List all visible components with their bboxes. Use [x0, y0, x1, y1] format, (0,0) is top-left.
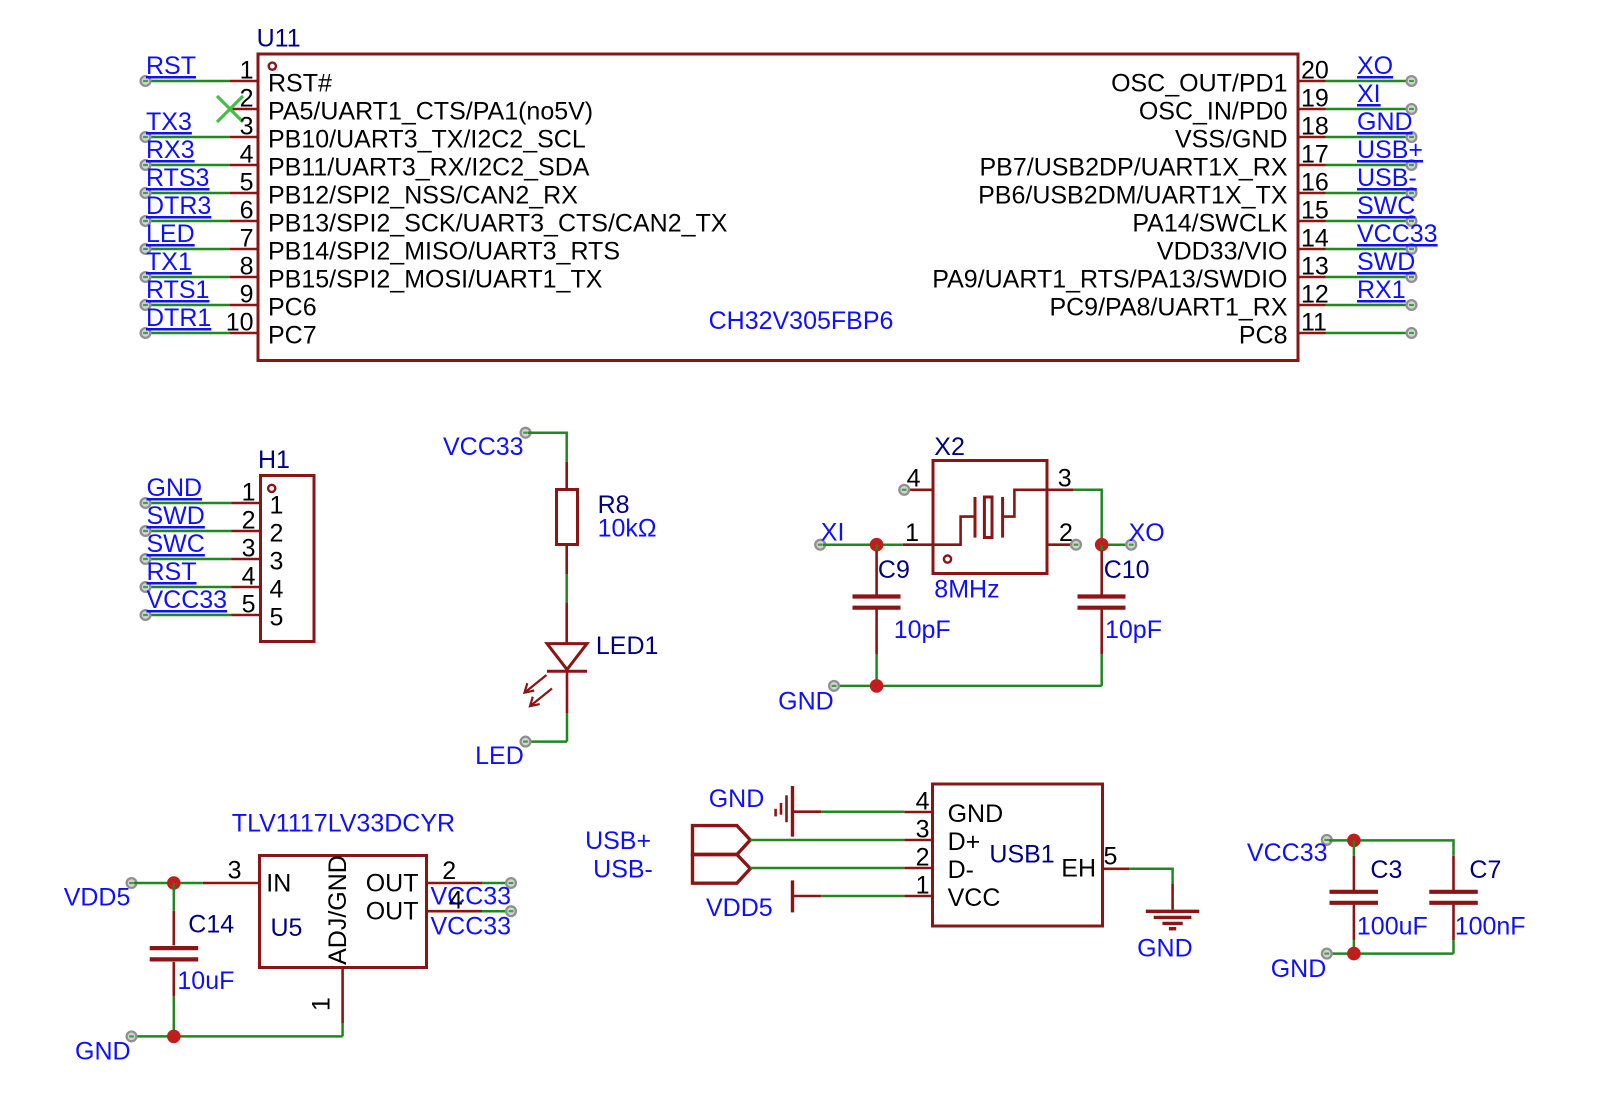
H1 pin 5 [141, 591, 284, 632]
net label XO (U11 pin 20) [1357, 52, 1393, 80]
LED D1 (LED1) diode symbol [547, 603, 587, 713]
U11 pin 5 (PB12/SPI2_NSS/CAN2_RX) [141, 169, 579, 210]
R8 value 10k ohm [598, 515, 657, 543]
svg-text:1: 1 [308, 997, 336, 1011]
wire GND rail under C3/C7 [1329, 952, 1454, 955]
crystal X2 body [933, 461, 1047, 574]
svg-text:VSS/GND: VSS/GND [1175, 126, 1288, 154]
U11 pin 16 (PB6/USB2DM/UART1X_TX) [978, 169, 1416, 210]
net label USB- [593, 856, 653, 884]
C14 value 10uF [177, 967, 234, 995]
X2 value 8MHz [934, 576, 999, 604]
wire GND rail under U5 [134, 1035, 343, 1038]
svg-text:U5: U5 [271, 914, 303, 942]
svg-text:4: 4 [242, 563, 256, 591]
svg-text:VCC33: VCC33 [1357, 220, 1438, 248]
net flag GND (C3/C7) [1271, 949, 1332, 983]
svg-text:GND: GND [1357, 108, 1413, 136]
svg-text:3: 3 [270, 548, 284, 576]
IC U11 CH32V305FBP6 body [258, 54, 1298, 361]
net label VCC33 (U11 pin 14) [1357, 220, 1438, 248]
wire VCC33 to C7 top [1329, 840, 1454, 855]
C14 reference designator [188, 911, 234, 939]
svg-text:PB14/SPI2_MISO/UART3_RTS: PB14/SPI2_MISO/UART3_RTS [268, 238, 620, 266]
svg-text:7: 7 [240, 225, 254, 253]
X2 pin 1 [903, 519, 933, 547]
svg-text:GND: GND [147, 474, 203, 502]
USB- signal flag (pentagon) [693, 855, 751, 884]
X2 crystal internal symbol [933, 490, 1047, 545]
svg-text:13: 13 [1301, 253, 1329, 281]
svg-text:VCC33: VCC33 [1247, 839, 1328, 867]
svg-text:5: 5 [240, 169, 254, 197]
svg-text:RST#: RST# [268, 70, 332, 98]
U11 pin 10 (PC7) [141, 309, 317, 350]
capacitor C7 [1429, 856, 1478, 954]
net label USB+ [585, 827, 651, 855]
svg-text:USB+: USB+ [585, 827, 651, 855]
C3 value 100uF [1357, 913, 1428, 941]
svg-text:LED: LED [475, 742, 524, 770]
svg-text:4: 4 [270, 576, 284, 604]
U11 pin 8 (PB15/SPI2_MOSI/UART1_TX) [141, 253, 603, 294]
svg-text:5: 5 [242, 591, 256, 619]
svg-text:4: 4 [240, 141, 254, 169]
wire X2 pin 3 to XO [1073, 490, 1131, 545]
svg-text:GND: GND [709, 785, 765, 813]
svg-text:14: 14 [1301, 225, 1329, 253]
USB1 pin 4 (GND) [904, 788, 1003, 829]
svg-text:3: 3 [240, 113, 254, 141]
U11 pin 20 (OSC_OUT/PD1) [1111, 57, 1416, 98]
H1 pin 2 [141, 507, 284, 548]
svg-text:C9: C9 [878, 556, 910, 584]
svg-text:2: 2 [242, 507, 256, 535]
LED1 reference designator [596, 632, 659, 660]
svg-text:VCC33: VCC33 [147, 586, 228, 614]
svg-text:USB-: USB- [593, 856, 653, 884]
svg-text:2: 2 [442, 857, 456, 885]
X2 pin 3 [1047, 465, 1073, 493]
U5 pin 2 (OUT top) [366, 857, 516, 898]
svg-text:RST: RST [146, 52, 196, 80]
svg-text:PA14/SWCLK: PA14/SWCLK [1132, 210, 1287, 238]
wire XI to X2 pin 1 [823, 543, 903, 546]
svg-text:XI: XI [1357, 80, 1381, 108]
net flag VCC33 (top of R8) [443, 428, 530, 461]
svg-text:PA9/UART1_RTS/PA13/SWDIO: PA9/UART1_RTS/PA13/SWDIO [932, 266, 1287, 294]
svg-text:XO: XO [1129, 519, 1165, 547]
svg-text:1: 1 [916, 872, 930, 900]
X2 pin-1 marker dot [944, 556, 951, 563]
U11 pin 6 (PB13/SPI2_SCK/UART3_CTS/CAN2_TX) [141, 197, 728, 238]
crystal X2 reference designator [934, 433, 965, 461]
svg-text:100uF: 100uF [1357, 913, 1428, 941]
net flag XO [1126, 519, 1164, 550]
svg-text:IN: IN [266, 870, 291, 898]
junction at C14 / GND [167, 1030, 181, 1044]
C3 reference designator [1370, 856, 1402, 884]
capacitor C9 [853, 545, 901, 686]
svg-text:VCC33: VCC33 [443, 433, 524, 461]
svg-text:10pF: 10pF [894, 616, 951, 644]
svg-text:USB+: USB+ [1357, 136, 1423, 164]
header H1 body [261, 476, 315, 642]
net flag LED (bottom of LED1) [475, 737, 530, 770]
U11 pin 12 (PC9/PA8/UART1_RX) [1049, 281, 1416, 322]
svg-text:XO: XO [1357, 52, 1393, 80]
wire VDD5 port to USB1 pin 1 [821, 895, 904, 898]
svg-text:PA5/UART1_CTS/PA1(no5V): PA5/UART1_CTS/PA1(no5V) [268, 98, 593, 126]
svg-text:VCC: VCC [948, 884, 1001, 912]
svg-text:16: 16 [1301, 169, 1329, 197]
C10 reference designator [1104, 556, 1150, 584]
net label VCC33 (H1 pin 5) [147, 586, 228, 614]
capacitor C3 [1330, 840, 1379, 953]
net label XI (U11 pin 19) [1357, 80, 1381, 108]
svg-text:TX1: TX1 [146, 248, 192, 276]
svg-text:PB11/UART3_RX/I2C2_SDA: PB11/UART3_RX/I2C2_SDA [268, 154, 590, 182]
net label TX3 (U11 pin 3) [146, 108, 192, 136]
svg-text:D-: D- [948, 856, 974, 884]
USB1 pin 3 (D+) [904, 816, 980, 857]
svg-text:DTR1: DTR1 [146, 304, 211, 332]
junction at XI / C9 [870, 538, 884, 552]
net label VCC33 (U5 pin 4) [431, 913, 512, 941]
wire VDD5 to U5 pin 3 [134, 882, 203, 885]
svg-text:PC6: PC6 [268, 294, 317, 322]
svg-text:XI: XI [821, 519, 845, 547]
wire GND port to USB1 pin 4 [821, 810, 904, 813]
USB+ signal flag (pentagon) [693, 826, 751, 855]
svg-text:9: 9 [240, 281, 254, 309]
U11 pin 15 (PA14/SWCLK) [1132, 197, 1416, 238]
net label RX3 (U11 pin 4) [146, 136, 195, 164]
H1 pin 4 [141, 563, 284, 604]
svg-text:VDD33/VIO: VDD33/VIO [1157, 238, 1288, 266]
wire USB+ flag to USB1 pin 3 [750, 839, 904, 842]
net flag VDD5 [64, 878, 137, 911]
svg-text:10kΩ: 10kΩ [598, 515, 657, 543]
svg-text:SWD: SWD [147, 502, 205, 530]
svg-text:GND: GND [778, 688, 834, 716]
no-connect cross on U11 pin 2 [217, 96, 243, 122]
svg-text:SWD: SWD [1357, 248, 1415, 276]
svg-text:12: 12 [1301, 281, 1329, 309]
net label LED (U11 pin 7) [146, 220, 195, 248]
net flag GND (crystal) [778, 681, 839, 716]
svg-text:RST: RST [147, 558, 197, 586]
svg-text:10pF: 10pF [1105, 616, 1162, 644]
svg-text:PC8: PC8 [1239, 322, 1288, 350]
resistor R8 [557, 462, 578, 574]
header H1 reference designator [258, 446, 290, 474]
svg-text:8MHz: 8MHz [934, 576, 999, 604]
svg-text:PB7/USB2DP/UART1X_RX: PB7/USB2DP/UART1X_RX [980, 154, 1288, 182]
X2 pin 4 [899, 465, 933, 495]
svg-text:C3: C3 [1370, 856, 1402, 884]
svg-text:X2: X2 [934, 433, 965, 461]
U11 pin 17 (PB7/USB2DP/UART1X_RX) [980, 141, 1417, 182]
U11 pin 13 (PA9/UART1_RTS/PA13/SWDIO) [932, 253, 1416, 294]
H1 pin-1 marker dot [268, 485, 275, 492]
svg-text:PC7: PC7 [268, 322, 317, 350]
R8 reference designator [598, 491, 630, 519]
svg-text:OSC_OUT/PD1: OSC_OUT/PD1 [1111, 70, 1287, 98]
svg-text:CH32V305FBP6: CH32V305FBP6 [709, 307, 894, 335]
svg-text:RTS3: RTS3 [146, 164, 209, 192]
net label GND (EH) [1137, 935, 1193, 963]
svg-text:1: 1 [242, 479, 256, 507]
svg-text:C10: C10 [1104, 556, 1150, 584]
svg-text:5: 5 [270, 604, 284, 632]
USB1 pin 5 (EH) lead [1103, 843, 1173, 910]
U5 part value TLV1117LV33DCYR [232, 810, 455, 838]
U11 pin 9 (PC6) [141, 281, 317, 322]
svg-text:3: 3 [242, 535, 256, 563]
X2 pin 2 [1047, 519, 1081, 550]
U11 pin 19 (OSC_IN/PD0) [1139, 85, 1417, 126]
LED1 emission arrows [525, 675, 553, 706]
svg-text:8: 8 [240, 253, 254, 281]
wire LED1 to LED flag [528, 713, 567, 742]
U11 pin-1 marker dot [269, 63, 276, 70]
U5 pin 1 (ADJ/GND) lead [308, 968, 343, 1037]
svg-text:H1: H1 [258, 446, 290, 474]
svg-text:100nF: 100nF [1455, 913, 1526, 941]
svg-text:USB-: USB- [1357, 164, 1417, 192]
junction at C9 / GND [870, 679, 884, 693]
U5 pin 1 label ADJ/GND (rotated) [324, 855, 352, 965]
svg-text:11: 11 [1301, 309, 1327, 337]
svg-text:GND: GND [948, 800, 1004, 828]
svg-text:GND: GND [75, 1038, 131, 1066]
junction at VCC33 / C3 [1347, 834, 1361, 848]
net label RX1 (U11 pin 12) [1357, 276, 1406, 304]
svg-text:6: 6 [240, 197, 254, 225]
svg-text:1: 1 [905, 519, 919, 547]
U5 reference designator [271, 914, 303, 942]
net label USB+ (U11 pin 17) [1357, 136, 1423, 164]
wire USB- flag to USB1 pin 2 [750, 867, 904, 870]
net label SWC (U11 pin 15) [1357, 192, 1415, 220]
IC U11 reference designator [257, 25, 301, 53]
junction at VDD5 / C14 [167, 876, 181, 890]
U11 pin 2 (PA5/UART1_CTS/PA1(no5V)) [230, 85, 593, 126]
svg-text:VCC33: VCC33 [431, 913, 512, 941]
wire R8 to LED1 [565, 574, 568, 603]
net flag VCC33 (C3/C7) [1247, 835, 1332, 867]
C10 value 10pF [1105, 616, 1162, 644]
net label RST (H1 pin 4) [147, 558, 197, 586]
svg-text:D+: D+ [948, 828, 981, 856]
net label USB- (U11 pin 16) [1357, 164, 1417, 192]
svg-text:3: 3 [1058, 465, 1072, 493]
junction at C3 / GND [1347, 947, 1361, 961]
VDD5 port symbol (USB1 pin 1) [793, 880, 822, 912]
svg-text:C7: C7 [1469, 856, 1501, 884]
svg-text:VDD5: VDD5 [706, 894, 773, 922]
svg-text:VDD5: VDD5 [64, 884, 131, 912]
svg-text:1: 1 [240, 57, 254, 85]
U11 pin 11 (PC8) [1239, 309, 1417, 350]
svg-text:TLV1117LV33DCYR: TLV1117LV33DCYR [232, 810, 455, 838]
svg-text:PC9/PA8/UART1_RX: PC9/PA8/UART1_RX [1049, 294, 1287, 322]
svg-text:3: 3 [228, 857, 242, 885]
svg-text:2: 2 [916, 844, 930, 872]
H1 pin 1 [141, 479, 284, 520]
junction at XO / C10 [1095, 538, 1109, 552]
USB1 pin 1 (VCC) [904, 872, 1000, 913]
svg-text:LED: LED [146, 220, 195, 248]
wire VCC33 to R8 [528, 433, 567, 462]
regulator U5 body [260, 856, 427, 968]
net label VCC33 (U5 pin 2) [431, 883, 512, 911]
USB1 pin 5 name EH [1061, 855, 1096, 883]
svg-text:OUT: OUT [366, 898, 419, 926]
svg-text:GND: GND [1271, 955, 1327, 983]
U11 pin 1 (RST#) [141, 57, 332, 98]
C7 reference designator [1469, 856, 1501, 884]
net label TX1 (U11 pin 8) [146, 248, 192, 276]
svg-text:3: 3 [916, 816, 930, 844]
net label RTS1 (U11 pin 9) [146, 276, 209, 304]
svg-text:PB6/USB2DM/UART1X_TX: PB6/USB2DM/UART1X_TX [978, 182, 1288, 210]
C9 value 10pF [894, 616, 951, 644]
net label SWD (U11 pin 13) [1357, 248, 1415, 276]
net label RTS3 (U11 pin 5) [146, 164, 209, 192]
svg-text:RX3: RX3 [146, 136, 195, 164]
svg-text:ADJ/GND: ADJ/GND [324, 855, 352, 965]
svg-text:PB15/SPI2_MOSI/UART1_TX: PB15/SPI2_MOSI/UART1_TX [268, 266, 603, 294]
U5 pin 4 (OUT bottom) [366, 887, 516, 926]
svg-text:OUT: OUT [366, 870, 419, 898]
net label SWD (H1 pin 2) [147, 502, 205, 530]
U11 pin 4 (PB11/UART3_RX/I2C2_SDA) [141, 141, 590, 182]
earth ground symbol (EH) [1146, 911, 1200, 928]
svg-text:20: 20 [1301, 57, 1329, 85]
U5 pin 3 (IN) [203, 857, 291, 898]
net label SWC (H1 pin 3) [147, 530, 205, 558]
net label VDD5 (USB1 pin 1) [706, 894, 773, 922]
svg-text:10: 10 [226, 309, 254, 337]
svg-text:DTR3: DTR3 [146, 192, 211, 220]
svg-text:4: 4 [449, 887, 463, 915]
svg-text:19: 19 [1301, 85, 1329, 113]
U11 pin 14 (VDD33/VIO) [1157, 225, 1417, 266]
svg-text:PB12/SPI2_NSS/CAN2_RX: PB12/SPI2_NSS/CAN2_RX [268, 182, 578, 210]
capacitor C10 [1078, 545, 1126, 686]
C7 value 100nF [1455, 913, 1526, 941]
wire GND rail under crystal [836, 685, 1102, 688]
USB1 pin 2 (D-) [904, 844, 974, 885]
svg-text:U11: U11 [257, 25, 301, 53]
GND port symbol (USB1 pin 4) [776, 786, 822, 837]
net label GND (U11 pin 18) [1357, 108, 1413, 136]
svg-text:USB1: USB1 [989, 841, 1054, 869]
svg-text:LED1: LED1 [596, 632, 659, 660]
net label GND (H1 pin 1) [147, 474, 203, 502]
svg-text:1: 1 [270, 492, 284, 520]
svg-text:C14: C14 [188, 911, 234, 939]
net label DTR3 (U11 pin 6) [146, 192, 211, 220]
svg-text:RX1: RX1 [1357, 276, 1406, 304]
U11 pin 18 (VSS/GND) [1175, 113, 1416, 154]
svg-text:EH: EH [1061, 855, 1096, 883]
svg-text:4: 4 [907, 465, 921, 493]
svg-text:2: 2 [270, 520, 284, 548]
svg-text:18: 18 [1301, 113, 1329, 141]
svg-text:SWC: SWC [147, 530, 205, 558]
svg-text:VCC33: VCC33 [431, 883, 512, 911]
net flag GND (U5) [75, 1032, 136, 1066]
capacitor C14 [150, 883, 199, 1036]
net flag XI [815, 519, 844, 550]
U11 pin 7 (PB14/SPI2_MISO/UART3_RTS) [141, 225, 620, 266]
svg-text:GND: GND [1137, 935, 1193, 963]
H1 pin 3 [141, 535, 284, 576]
svg-text:RTS1: RTS1 [146, 276, 209, 304]
svg-text:17: 17 [1301, 141, 1329, 169]
svg-text:SWC: SWC [1357, 192, 1415, 220]
C9 reference designator [878, 556, 910, 584]
svg-text:PB13/SPI2_SCK/UART3_CTS/CAN2_T: PB13/SPI2_SCK/UART3_CTS/CAN2_TX [268, 210, 728, 238]
U11 pin 3 (PB10/UART3_TX/I2C2_SCL) [141, 113, 586, 154]
svg-text:OSC_IN/PD0: OSC_IN/PD0 [1139, 98, 1288, 126]
svg-text:4: 4 [916, 788, 930, 816]
USB connector USB1 body [933, 784, 1103, 926]
net label GND (USB1 pin 4) [709, 785, 765, 813]
svg-text:5: 5 [1104, 843, 1118, 871]
svg-text:15: 15 [1301, 197, 1329, 225]
svg-text:PB10/UART3_TX/I2C2_SCL: PB10/UART3_TX/I2C2_SCL [268, 126, 586, 154]
svg-text:10uF: 10uF [177, 967, 234, 995]
svg-text:TX3: TX3 [146, 108, 192, 136]
net label RST (U11 pin 1) [146, 52, 196, 80]
USB1 reference designator [989, 841, 1054, 869]
U11 part value CH32V305FBP6 [709, 307, 894, 335]
net label DTR1 (U11 pin 10) [146, 304, 211, 332]
svg-text:2: 2 [1059, 519, 1073, 547]
